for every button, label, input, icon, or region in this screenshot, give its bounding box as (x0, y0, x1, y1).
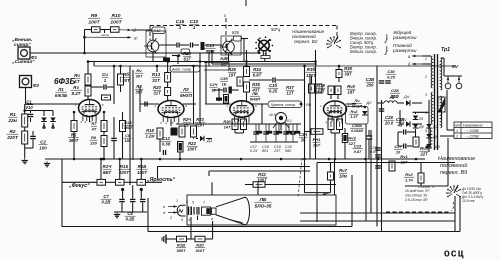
junction (364, 106, 367, 109)
svg-text:R1В: R1В (177, 243, 185, 248)
wire C13 to T2 (205, 44, 223, 46)
svg-text:R37: R37 (286, 85, 294, 90)
tap wire b (422, 63, 431, 65)
label Др1 (389, 94, 399, 99)
stub rail (156, 66, 158, 72)
svg-text:Д9: Д9 (434, 145, 440, 149)
stub (43, 111, 45, 117)
resistor R2 (22, 131, 28, 144)
svg-text:С1: С1 (26, 100, 32, 105)
resistor R23v (191, 126, 197, 137)
junction (426, 146, 429, 149)
ground input (22, 158, 28, 164)
svg-text:Rч3: Rч3 (348, 136, 356, 141)
open box top right of pill (204, 63, 229, 71)
resistor R16 pot (137, 179, 146, 185)
label R7 (91, 121, 98, 131)
svg-text:ч0.5: ч0.5 (269, 113, 276, 117)
label С24 (209, 83, 217, 92)
stub (30, 118, 32, 122)
T1 stage box (146, 31, 166, 57)
pot wiper dot 2 (140, 188, 143, 191)
svg-text:перекл. В2: перекл. В2 (294, 39, 318, 44)
svg-text:1: 1 (193, 25, 196, 30)
grid wire Л1 (26, 103, 80, 105)
stub (243, 130, 245, 134)
wire (305, 192, 331, 194)
svg-text:С28: С28 (385, 115, 393, 120)
label C28 (384, 115, 395, 126)
junction (119, 65, 122, 68)
label R32 (257, 172, 268, 183)
limiter arrows (43, 125, 46, 129)
resistor R28 (237, 77, 243, 86)
label R40 (347, 84, 356, 95)
pill box Чувств. синхр (268, 101, 302, 108)
resistor R34 (244, 67, 250, 77)
svg-text:Др1: Др1 (389, 94, 399, 99)
switch B2 down wire a (262, 51, 264, 56)
rectifier column wire (428, 100, 430, 152)
svg-text:в: в (163, 205, 165, 209)
cathode bottom wire (235, 132, 244, 134)
transformer secondary winding (441, 58, 442, 90)
svg-text:1.7п: 1.7п (405, 177, 414, 182)
vertical x317 (316, 163, 318, 223)
svg-text:R28: R28 (228, 67, 236, 72)
svg-text:Наименование: Наименование (438, 156, 475, 162)
outer box left edge (147, 198, 149, 232)
svg-text:R20: R20 (153, 85, 161, 90)
junction (338, 65, 341, 68)
junction (87, 60, 90, 63)
junction (100, 158, 103, 161)
svg-text:R2б: R2б (220, 56, 228, 61)
resistor РН1 horizontal (311, 129, 323, 135)
wire to R18 box (131, 29, 152, 31)
resistor R13 (165, 73, 171, 83)
label С36b (220, 77, 228, 86)
svg-text:826: 826 (232, 30, 240, 35)
svg-text:0.25: 0.25 (269, 89, 278, 94)
resistor R15 pot (116, 179, 125, 185)
pin wire R5 (73, 112, 75, 121)
wire from R26 (242, 38, 249, 40)
CRT tube Л6 neck (177, 205, 185, 216)
svg-text:1Б: 1Б (222, 82, 227, 86)
stub (330, 130, 332, 134)
wire (330, 180, 332, 193)
ground focus (114, 212, 120, 218)
cap bank bottom wire (250, 141, 298, 143)
nested box edge x371 (370, 130, 372, 213)
label R9 100Т (88, 13, 101, 25)
svg-text:4: 4 (425, 111, 427, 115)
svg-text:R38: R38 (344, 66, 352, 71)
capacitor C38 (379, 109, 385, 111)
svg-text:развертки: развертки (392, 48, 417, 53)
svg-text:36Т: 36Т (135, 90, 143, 95)
wire R32 to CRT box (265, 184, 336, 186)
anode drop x262 (261, 104, 263, 124)
wiper drop 1 (122, 190, 124, 199)
svg-text:R1: R1 (10, 112, 16, 117)
middle rail y64 (212, 63, 317, 65)
wire (245, 184, 253, 186)
resistor R4 (85, 74, 91, 85)
junction (303, 158, 306, 161)
resistor R22a (179, 126, 185, 137)
tap wire a (422, 55, 431, 57)
svg-text:2: 2 (424, 75, 427, 79)
capacitor bank c1 (263, 132, 269, 134)
terminal Ф1 Внешн.синхр input (18, 47, 30, 59)
far right vertical x455 (454, 196, 456, 232)
svg-text:перекл. В9: перекл. В9 (440, 170, 467, 176)
wire (213, 89, 223, 91)
B+ rail y66 (94, 65, 455, 67)
dashed line bottom right (386, 211, 451, 213)
top stub wire (245, 0, 247, 6)
svg-text:6.8Т: 6.8Т (253, 73, 262, 78)
label R22 (187, 141, 198, 152)
svg-text:Rч2: Rч2 (405, 172, 413, 177)
wiper drop 2 (140, 190, 142, 199)
capacitor C8a (130, 199, 136, 201)
svg-text:R22: R22 (188, 141, 196, 146)
vertical x334 to CRT box (334, 159, 336, 195)
junction rail (245, 65, 248, 68)
svg-text:50Гц: 50Гц (271, 27, 281, 32)
wire (405, 185, 448, 187)
label Rч1 (400, 154, 409, 164)
label R42 (349, 110, 359, 119)
svg-text:R39: R39 (317, 83, 325, 88)
junction (159, 158, 162, 161)
resistor Rч2 (418, 173, 424, 183)
capacitor C30b (385, 81, 391, 83)
label Л6 5ЛО-35 (254, 197, 271, 209)
wire R20 bottom (167, 96, 169, 101)
resistor R32 pot (253, 182, 265, 188)
label R8b (135, 84, 144, 95)
svg-text:Rч1: Rч1 (400, 154, 407, 159)
svg-text:4Т: 4Т (91, 126, 97, 131)
pot down wire (280, 124, 282, 131)
junction (245, 60, 248, 63)
stub (337, 95, 339, 100)
table wire 2 (440, 135, 454, 137)
wire C16 to C10 (180, 44, 189, 46)
svg-text:31Т: 31Т (152, 78, 161, 83)
stub to CRT box 2 (257, 182, 259, 195)
resistor R1 (22, 114, 28, 127)
svg-text:Тр1: Тр1 (441, 47, 450, 53)
svg-text:„Фокус“: „Фокус“ (68, 183, 90, 189)
CRT funnel (216, 197, 250, 224)
label C2 (39, 140, 48, 151)
stub (30, 111, 32, 114)
inner shield left edge A (129, 66, 131, 185)
tube Л3 6Н9С (226, 101, 257, 125)
switch B2 down wire b (265, 51, 267, 56)
stub (206, 138, 212, 140)
resistor R19 (177, 236, 187, 242)
svg-text:Чувств. синхр.: Чувств. синхр. (271, 103, 296, 107)
svg-text:6Н9П: 6Н9П (250, 96, 260, 101)
svg-text:15-9 сек: 15-9 сек (462, 199, 475, 203)
capacitor bank c0 (253, 132, 259, 134)
label R14 (103, 164, 113, 175)
dashed boundary mid vertical (225, 18, 227, 60)
svg-text:Внешн. синхр.: Внешн. синхр. (350, 49, 377, 54)
label R28 (228, 67, 237, 77)
svg-text:V10: V10 (25, 105, 33, 110)
capacitor C35b (375, 155, 381, 157)
label C30 (386, 69, 396, 79)
svg-text:180Т: 180Т (124, 126, 133, 130)
svg-text:0.2Б: 0.2Б (126, 217, 135, 222)
pill box Ампл. синхрон. (170, 66, 200, 73)
svg-text:19Т: 19Т (228, 72, 236, 77)
capacitor polarized dark (229, 87, 232, 94)
svg-text:8.2Т: 8.2Т (72, 91, 82, 96)
wire (232, 89, 239, 91)
stub (52, 123, 54, 129)
svg-text:~ 220В: ~ 220В (466, 128, 479, 133)
svg-text:}: } (384, 45, 388, 55)
capacitor dark horizontal (216, 98, 222, 101)
fuse Пр1 (438, 97, 445, 112)
pin wire (122, 112, 124, 121)
label C23 (352, 144, 362, 154)
inner shield left edge B (132, 70, 134, 160)
svg-text:R2б: R2б (196, 243, 204, 248)
stage bottom wire (152, 61, 233, 63)
junction (73, 158, 76, 161)
svg-text:4: 4 (188, 218, 190, 222)
dark resistor box (178, 142, 184, 153)
svg-text:Д2: Д2 (366, 100, 373, 105)
svg-text:0.38: 0.38 (206, 49, 215, 54)
svg-text:С/500: С/500 (352, 124, 363, 128)
svg-text:С10: С10 (190, 19, 199, 24)
label R24b (183, 117, 192, 127)
resistor R5 cathode (71, 121, 77, 132)
junction (103, 158, 106, 161)
diode limiter 1 (41, 118, 47, 122)
wire (146, 181, 163, 183)
svg-text:R1Б: R1Б (138, 164, 147, 169)
anode feed wire (87, 62, 89, 75)
svg-text:20.0: 20.0 (384, 121, 394, 126)
wire (24, 144, 26, 158)
junction (156, 65, 159, 68)
capacitor C1 (28, 114, 34, 116)
svg-text:R8: R8 (91, 135, 97, 140)
svg-text:С1Ч: С1Ч (299, 132, 308, 137)
svg-text:31Т: 31Т (153, 91, 161, 96)
resistor R29b (241, 119, 247, 130)
label R16 (136, 164, 148, 175)
dashed boundary top (150, 25, 337, 27)
svg-text:в': в' (163, 211, 166, 215)
junction (73, 111, 76, 114)
label C7 (101, 194, 112, 205)
selector switch fan B2 (326, 36, 341, 48)
anode wire (87, 96, 89, 99)
capacitor bank c4 (290, 132, 296, 134)
svg-text:Дб: Дб (418, 125, 425, 129)
vertical x448 (447, 138, 449, 186)
wire (24, 127, 26, 131)
svg-text:100Т: 100Т (137, 170, 148, 175)
CRT enclosure box (187, 195, 336, 225)
ground blob T1 (163, 58, 170, 63)
svg-text:360Т: 360Т (176, 248, 186, 253)
label R19 (176, 243, 186, 253)
wire x114 (113, 66, 115, 87)
CRT deflection box 2 (212, 208, 217, 214)
resistor R10 (111, 27, 120, 33)
drop from R9 to sync wire (84, 30, 86, 54)
drop to pot 3 (140, 159, 142, 179)
bias wire (172, 55, 179, 57)
inductor Др1 (384, 101, 397, 103)
svg-text:люте: люте (100, 33, 110, 37)
label R34 (252, 67, 263, 78)
tap wire (424, 63, 430, 65)
wire (407, 131, 416, 133)
drop to pot 2 (119, 159, 121, 179)
junction R24 (178, 54, 181, 57)
svg-text:Rч0: Rч0 (347, 84, 355, 89)
capacitor С24 (224, 88, 226, 93)
tap wire (424, 55, 430, 57)
stub (368, 139, 370, 159)
svg-text:С2Ч: С2Ч (210, 83, 218, 87)
capacitor coupling Л2 (145, 102, 147, 107)
label C15 (268, 83, 279, 94)
svg-text:12Т: 12Т (286, 91, 294, 96)
potentiometer В4 rotary (276, 113, 287, 124)
diode Д8 (426, 134, 432, 138)
label Л4 type (352, 98, 362, 108)
resistor R9v (120, 121, 126, 132)
arrow lead а (85, 36, 132, 39)
svg-text:С16: С16 (176, 19, 185, 24)
resistor R24 horizontal (181, 49, 190, 54)
filament terminal 1 (445, 83, 451, 89)
capacitor C30 (379, 81, 385, 83)
svg-text:100Т: 100Т (88, 19, 100, 25)
svg-text:14Т: 14Т (224, 124, 231, 129)
stub (344, 128, 346, 134)
filament wire (444, 75, 462, 77)
resistor R5 (102, 95, 111, 100)
resistor R mid (389, 161, 395, 171)
wire (412, 123, 422, 125)
wire (398, 145, 403, 147)
label R13 (152, 72, 162, 83)
resistor R41a (328, 119, 334, 130)
stub (196, 138, 198, 140)
svg-text:Сек-20тис 39: Сек-20тис 39 (405, 194, 427, 198)
stub to CRT box (211, 182, 213, 195)
junction (314, 60, 317, 63)
coupling wire 2 (107, 86, 114, 88)
svg-text:СЗб: СЗб (220, 77, 228, 81)
svg-text:22Т: 22Т (419, 152, 428, 157)
svg-text:R3б: R3б (307, 66, 316, 72)
junction at В2 (258, 52, 261, 55)
resistor R38 (336, 70, 342, 78)
svg-text:Дч': Дч' (403, 94, 410, 99)
tube Л1 6Ж3Б (75, 100, 104, 125)
label C12 (161, 136, 172, 147)
svg-text:а: а (211, 217, 213, 221)
resistor dark box (224, 95, 229, 104)
wire (304, 159, 306, 193)
stub (338, 78, 340, 83)
resistor R6 (118, 74, 124, 85)
right enclosure edge x381 (381, 100, 383, 232)
wire (25, 147, 33, 149)
drop x157 (157, 167, 159, 179)
svg-text:}: } (384, 33, 388, 43)
junction (140, 158, 143, 161)
vertical x193 (193, 66, 195, 124)
svg-text:С1б: С1б (269, 83, 277, 88)
row bus wire (255, 123, 301, 125)
svg-text:2: 2 (169, 216, 172, 220)
svg-text:0.25: 0.25 (387, 74, 396, 79)
resistor R7v (101, 121, 107, 132)
svg-text:„Сигнал“: „Сигнал“ (11, 59, 35, 65)
junction (113, 65, 116, 68)
arrow lead б (119, 29, 131, 32)
label Rч2 (404, 172, 414, 182)
junction (328, 158, 331, 161)
label R4 (74, 73, 81, 84)
switch B2 down wire c (264, 59, 266, 62)
label R24 (183, 51, 192, 62)
stub (32, 140, 34, 149)
stub (32, 131, 34, 136)
label R18c (145, 128, 156, 139)
label R30 (223, 119, 232, 129)
ground caps row (258, 124, 260, 131)
svg-text:R30: R30 (223, 119, 231, 124)
vertical x212 (211, 50, 213, 64)
capacitor C12 (163, 150, 165, 155)
fuse wire down (441, 112, 443, 120)
table Напряжение (454, 122, 492, 139)
svg-text:5: 5 (192, 201, 194, 205)
capacitor bank c2 (273, 132, 279, 134)
svg-text:1: 1 (425, 57, 427, 61)
cathode bottom wire (331, 132, 340, 134)
wire (179, 152, 181, 159)
arrow lead (168, 211, 177, 214)
svg-text:220Т: 220Т (6, 135, 19, 140)
label R20 (195, 243, 205, 253)
sync input long wire (30, 52, 260, 54)
wire down to rail (246, 50, 248, 66)
right enclosure edge x377 (376, 66, 378, 227)
T2 emitter wire (228, 53, 230, 62)
junction (102, 158, 105, 161)
